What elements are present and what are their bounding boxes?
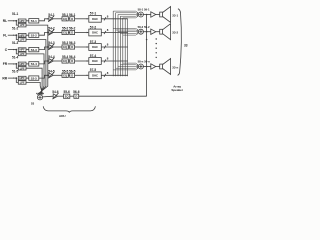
node junction RR (15, 77, 17, 79)
svg-text:8: 8 (107, 57, 109, 61)
HPF filter 51-1a (18, 19, 26, 23)
wire 54-3 to 55-3 (53, 46, 62, 48)
wire input FR (8, 63, 16, 65)
svg-text:57-5: 57-5 (90, 68, 97, 72)
wire to LPF 4 (16, 64, 18, 68)
svg-text:DHC: DHC (92, 31, 98, 35)
wire 53 to 54-6 (43, 95, 54, 98)
svg-text:EQ: EQ (63, 73, 67, 77)
svg-text:EQ: EQ (65, 94, 69, 98)
svg-text:D: D (75, 94, 77, 98)
wire 59-n to speaker (156, 66, 160, 68)
wire bus to 58-1 line 2 (116, 12, 139, 15)
speaker 33-n (160, 64, 163, 69)
amplifier 54-2 (49, 30, 53, 35)
DHC block 57-3 (89, 44, 102, 51)
svg-text:RL: RL (3, 19, 7, 23)
wire 55-2 to 56-2 (68, 32, 70, 34)
wire 54-5 to 55-5 (53, 74, 62, 76)
wire input RL (8, 20, 16, 22)
bus line 3 (117, 15, 119, 77)
block 52-4 (29, 62, 39, 66)
svg-text:55-6: 55-6 (63, 90, 70, 94)
svg-text:FL: FL (3, 33, 7, 37)
wire HPF to 52-2 (26, 34, 29, 36)
ellipsis dot 2 (156, 43, 157, 44)
wire 58-n to 59-n (143, 66, 150, 68)
svg-text:D: D (71, 31, 73, 35)
amplifier 54-4 (49, 59, 53, 64)
svg-text:56-5: 56-5 (69, 69, 76, 73)
wire bus to 58-1 line 4 (120, 14, 138, 17)
svg-text:LPF: LPF (20, 81, 25, 85)
wire bus to 58-2 line 5 (123, 33, 138, 35)
block 52-5 (29, 76, 39, 80)
delay 56-1 (70, 17, 75, 21)
svg-text:D: D (71, 17, 73, 21)
svg-text:FR: FR (3, 62, 8, 66)
svg-text:EQ: EQ (63, 17, 67, 21)
svg-text:55-1: 55-1 (62, 13, 69, 17)
LPF filter 51-1b (18, 23, 26, 27)
equalizer 55-1 (62, 17, 68, 21)
wire input RR (8, 77, 16, 79)
amplifier 54-1 (49, 16, 53, 21)
wire HPF to 52-5 (26, 77, 29, 79)
bus wire 57-4 output (101, 60, 127, 62)
svg-text:D: D (71, 73, 73, 77)
DHC block 57-4 (89, 58, 102, 65)
wire bus to 58-n line 3 (118, 66, 138, 68)
svg-text:56-6: 56-6 (73, 90, 80, 94)
svg-text:HPF: HPF (20, 48, 26, 52)
svg-text:51-1: 51-1 (12, 12, 19, 16)
HPF filter 51-5a (18, 76, 26, 80)
bus slash row 2 (104, 31, 106, 34)
bus line 1 (112, 11, 114, 76)
wire 52-2 to 54-2 (39, 33, 49, 36)
wire 54-6 to 55-6 (58, 95, 64, 97)
wire HPF to 52-4 (26, 63, 29, 65)
wire LPF 4 to summer (26, 68, 42, 94)
equalizer 55-2 (62, 30, 68, 34)
wire 52-3 to 54-3 (39, 47, 49, 50)
delay 56-4 (70, 59, 75, 63)
svg-text:EQ: EQ (63, 45, 67, 49)
svg-text:55-4: 55-4 (62, 55, 69, 59)
bus wire 57-1 output (101, 18, 127, 20)
wire LPF 1 to summer (26, 25, 48, 95)
wire bus to 58-2 line 2 (116, 29, 139, 32)
svg-text:58-1 59-1: 58-1 59-1 (138, 8, 150, 12)
wire bus to 58-n line 5 (113, 68, 138, 70)
svg-text:Speaker: Speaker (171, 88, 184, 92)
equalizer 55-3 (62, 45, 68, 49)
wire 56-6 to speakers (79, 95, 147, 97)
svg-text:DHC: DHC (92, 17, 98, 21)
ellipsis dot 1 (156, 38, 157, 39)
wire HPF to 52-1 (26, 20, 29, 22)
adder 58-2 (138, 29, 143, 34)
svg-text:56-4: 56-4 (69, 55, 76, 59)
svg-text:56-2: 56-2 (69, 27, 76, 31)
svg-text:ADU: ADU (59, 114, 66, 118)
svg-text:57-2: 57-2 (90, 25, 97, 29)
wire LPF 5 to summer (26, 82, 43, 94)
svg-text:HPF: HPF (20, 76, 26, 80)
svg-text:33-1: 33-1 (172, 14, 178, 18)
svg-text:DHC: DHC (92, 73, 98, 77)
wire input C (8, 49, 16, 51)
svg-text:DHC: DHC (92, 45, 98, 49)
bus line 2 (115, 13, 117, 77)
wire HPF to 52-3 (26, 49, 29, 51)
summer node 53 (37, 95, 42, 100)
svg-text:58-2 59-2: 58-2 59-2 (138, 25, 150, 29)
svg-text:52-2: 52-2 (31, 33, 37, 37)
wire 55-3 to 56-3 (68, 46, 70, 48)
wire 52-1 to 54-1 (39, 19, 49, 21)
svg-text:51-2: 51-2 (12, 27, 19, 31)
svg-text:8: 8 (107, 43, 109, 47)
svg-text:LPF: LPF (20, 23, 25, 27)
wire bus to 58-2 line 3 (118, 31, 138, 33)
amplifier 54-5 (49, 73, 53, 78)
svg-text:52-5: 52-5 (31, 76, 37, 80)
wire bus to 58-2 line 4 (120, 32, 138, 35)
junction woofer groupn (146, 66, 148, 68)
speaker 33-1 (160, 12, 163, 17)
wire 56-2 to 57-2 (75, 32, 89, 34)
wire 58-1 to 59-1 (143, 14, 150, 16)
block 52-2 (29, 33, 39, 37)
wire 54-4 to 55-4 (53, 60, 62, 62)
svg-text:LPF: LPF (20, 66, 25, 70)
svg-text:8: 8 (107, 71, 109, 75)
svg-text:C: C (5, 48, 8, 52)
LPF filter 51-5b (18, 81, 26, 85)
node junction C (15, 49, 17, 51)
equalizer 55-4 (62, 59, 68, 63)
bus line 7 (127, 19, 129, 77)
svg-text:LPF: LPF (20, 38, 25, 42)
bus slash row 4 (104, 59, 106, 62)
wire bus to 58-2 line 1 (113, 28, 138, 30)
wire to LPF 2 (16, 35, 18, 39)
svg-text:52-3: 52-3 (31, 48, 37, 52)
svg-text:55-2: 55-2 (62, 27, 69, 31)
svg-text:EQ: EQ (63, 31, 67, 35)
DHC block 57-5 (89, 72, 102, 79)
wire input FL (8, 34, 16, 36)
svg-text:RR: RR (2, 76, 7, 80)
LPF filter 51-4b (18, 66, 26, 70)
wire LPF 2 to summer (26, 40, 46, 95)
bus wire 57-2 output (101, 32, 127, 34)
svg-text:8: 8 (107, 14, 109, 18)
svg-text:55-5: 55-5 (62, 69, 69, 73)
svg-text:51-4: 51-4 (12, 55, 19, 59)
wire bus to 58-n line 4 (116, 66, 139, 69)
svg-text:DHC: DHC (92, 59, 98, 63)
amplifier 54-3 (49, 45, 53, 50)
wire LPF 3 to summer (26, 54, 44, 95)
HPF filter 51-4a (18, 62, 26, 66)
junction woofer (146, 39, 148, 41)
bus line 5 (122, 18, 124, 76)
wire 52-5 to 54-5 (39, 75, 49, 78)
node junction FR (15, 63, 17, 65)
wire 56-5 to 57-5 (75, 74, 89, 76)
svg-text:58-n 59-n: 58-n 59-n (138, 60, 151, 64)
delay 56-6 (74, 94, 79, 98)
DHC block 57-1 (89, 15, 102, 22)
svg-text:LPF: LPF (20, 52, 25, 56)
adder 58-1 (138, 12, 143, 17)
HPF filter 51-2a (18, 33, 26, 37)
bus slash row 5 (104, 74, 106, 77)
svg-text:53: 53 (31, 101, 35, 105)
wire 56-1 to 57-1 (75, 18, 89, 20)
wire bus to 58-1 line 5 (123, 16, 138, 18)
delay 56-2 (70, 30, 75, 34)
svg-text:HPF: HPF (20, 33, 26, 37)
wire to LPF 1 (16, 21, 18, 25)
svg-text:52-1: 52-1 (31, 19, 37, 23)
wire bus to 58-n line 2 (120, 64, 138, 67)
svg-text:55-3: 55-3 (62, 41, 69, 45)
ellipsis dot 3 (156, 48, 157, 49)
wire bus to 58-1 line 3 (118, 14, 138, 16)
speaker 33-2 (160, 29, 163, 34)
block 52-3 (29, 47, 39, 51)
wire bus to 58-1 line 1 (113, 11, 138, 13)
bus line 4 (119, 16, 121, 76)
svg-text:33-2: 33-2 (172, 31, 178, 35)
block 52-1 (29, 19, 39, 23)
wire 55-5 to 56-5 (68, 74, 70, 76)
svg-text:52-4: 52-4 (31, 62, 37, 66)
wire 59-1 to speaker (156, 14, 160, 16)
amplifier 59-1 (151, 12, 156, 17)
ellipsis dot 5 (156, 57, 157, 58)
junction woofer group2 (146, 31, 148, 33)
svg-text:56-1: 56-1 (69, 13, 76, 17)
ADU brace (43, 106, 95, 112)
wire to LPF 3 (16, 50, 18, 54)
wire 54-1 to 55-1 (53, 18, 62, 20)
bus slash row 3 (104, 45, 106, 48)
wire 56-3 to 57-3 (75, 46, 89, 48)
amplifier 59-n (151, 64, 156, 69)
wire 55-4 to 56-4 (68, 60, 70, 62)
delay 56-5 (70, 73, 75, 77)
svg-text:HPF: HPF (20, 19, 26, 23)
svg-text:D: D (71, 59, 73, 63)
wire 56-4 to 57-4 (75, 60, 89, 62)
svg-text:51-3: 51-3 (12, 41, 19, 45)
svg-text:EQ: EQ (63, 59, 67, 63)
wire to LPF 5 (16, 78, 18, 82)
amplifier 59-2 (151, 29, 156, 34)
delay 56-3 (70, 45, 75, 49)
ellipsis dot 4 (156, 52, 157, 53)
wire 54-2 to 55-2 (53, 32, 62, 34)
svg-text:33: 33 (184, 44, 188, 48)
equalizer 55-6 (64, 94, 70, 98)
wire 58-2 to 59-2 (143, 31, 150, 33)
node junction RL (15, 20, 17, 22)
wire 55-6 to 56-6 (70, 95, 74, 97)
equalizer 55-5 (62, 73, 68, 77)
wire 52-4 to 54-4 (39, 61, 49, 64)
svg-text:56-3: 56-3 (69, 41, 76, 45)
bus wire 57-3 output (101, 46, 127, 48)
HPF filter 51-3a (18, 48, 26, 52)
svg-text:D: D (71, 45, 73, 49)
bus line 6 (124, 19, 126, 77)
junction woofer group1 (146, 14, 148, 16)
bus wire 57-5 output (101, 74, 127, 76)
LPF filter 51-2b (18, 38, 26, 42)
svg-text:33-n: 33-n (172, 66, 178, 70)
svg-text:51-5: 51-5 (12, 70, 19, 74)
wire bus to 58-n line 1 (123, 63, 138, 65)
adder 58-n (138, 64, 143, 69)
svg-text:HPF: HPF (20, 62, 26, 66)
bus slash row 1 (104, 17, 106, 20)
svg-text:8: 8 (107, 28, 109, 32)
bracket 33 (178, 9, 182, 76)
DHC block 57-2 (89, 29, 102, 36)
wire 59-2 to speaker (156, 31, 160, 33)
amplifier 54-6 (53, 94, 57, 99)
wire 55-1 to 56-1 (68, 18, 70, 20)
LPF filter 51-3b (18, 52, 26, 56)
node junction FL (15, 34, 17, 36)
